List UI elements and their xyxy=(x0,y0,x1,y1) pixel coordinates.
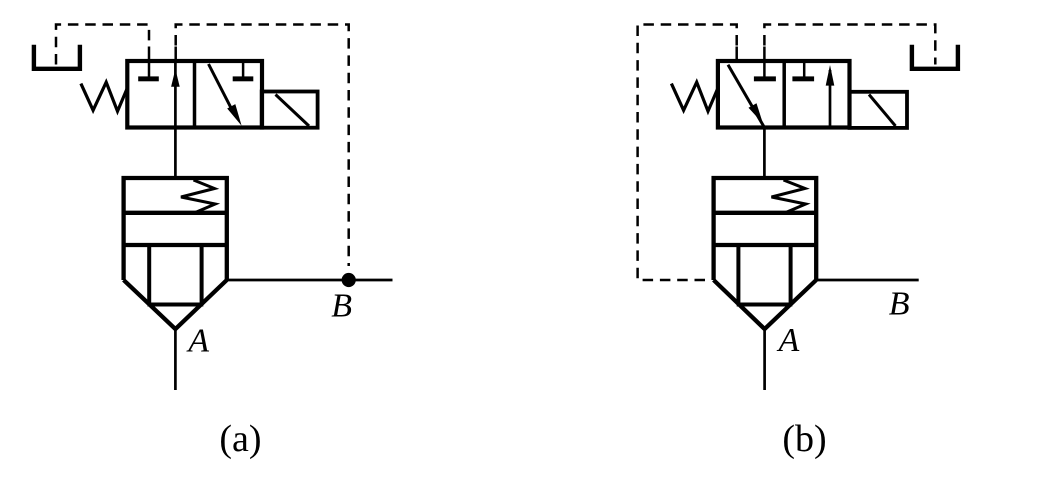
valve V1 position divider xyxy=(193,61,197,128)
check valve CV1 divider 2 xyxy=(124,243,227,247)
check valve CV2 poppet xyxy=(736,245,740,305)
pilot line: valve V1 vent port to tank T1 (dashed) xyxy=(56,25,149,65)
valve V2 pilot actuator box xyxy=(850,92,908,128)
spring (valve V1 return spring) xyxy=(81,82,127,111)
valve V2 left position blocked path arrow (diagonal) xyxy=(728,65,764,128)
svg-text:B: B xyxy=(331,288,352,325)
check valve CV1 divider 1 xyxy=(124,211,227,215)
valve V1 right position blocked path arrow (diagonal) xyxy=(209,64,233,111)
valve V1 pilot port stub xyxy=(174,47,177,62)
pilot line: valve V2 pilot port to check valve CV2 side port (dashed) xyxy=(638,25,737,281)
svg-text:A: A xyxy=(777,322,800,359)
valve V2 position divider xyxy=(782,61,786,128)
port A line (fig b) xyxy=(763,329,766,390)
svg-text:(b): (b) xyxy=(782,418,826,460)
valve V1 vent port stub xyxy=(148,47,151,62)
valve V2 body (3/2 directional valve, fig b) xyxy=(718,61,850,128)
check valve CV1 body outline (fig a) xyxy=(124,178,227,280)
check valve CV2 body outline (fig b) xyxy=(714,178,817,280)
valve V2 vent port stub xyxy=(763,47,766,62)
pilot line: valve V1 pilot port to port B (dashed) xyxy=(176,25,349,267)
svg-text:(a): (a) xyxy=(219,418,261,460)
check valve CV2 divider 2 xyxy=(714,243,817,247)
svg-text:B: B xyxy=(889,286,910,323)
junction dot on port B line xyxy=(342,273,356,287)
port A line (fig a) xyxy=(174,329,177,390)
port B line (fig a) xyxy=(227,279,393,282)
tank T1 (vent reservoir, fig a) xyxy=(34,45,80,69)
check valve CV2 divider 1 xyxy=(714,211,817,215)
valve V2 pilot port stub xyxy=(735,47,738,62)
check valve CV1 seat bevel (V) xyxy=(124,280,227,329)
tank T2 (vent reservoir, fig b) xyxy=(912,45,958,69)
svg-text:A: A xyxy=(186,322,209,359)
valve V2 right position flow path arrow (up) xyxy=(829,70,832,128)
valve V1 pilot actuator box xyxy=(262,92,318,128)
valve V2 pilot actuator diagonal xyxy=(869,95,896,127)
spring (valve V2 return spring) xyxy=(671,82,718,111)
valve V2 right position vent symbol T xyxy=(803,60,806,78)
valve V1 pilot actuator diagonal xyxy=(276,95,310,127)
main line: valve V1 to check valve CV1 xyxy=(174,128,177,179)
valve V1 left position vent symbol T xyxy=(148,60,151,78)
check valve CV2 seat bevel (V) xyxy=(714,280,817,329)
main line: valve V2 to check valve CV2 xyxy=(763,128,766,179)
valve V2 left position vent symbol T xyxy=(763,60,766,78)
check valve CV1 poppet xyxy=(147,245,151,305)
valve V1 body (3/2 directional valve, fig a) xyxy=(127,61,262,128)
spring (check valve CV1) xyxy=(181,180,215,213)
port B line (fig b) xyxy=(816,279,919,282)
valve V1 right position vent symbol T xyxy=(242,60,245,78)
spring (check valve CV2) xyxy=(772,180,806,213)
valve V1 left position flow path arrow (up) xyxy=(174,61,177,128)
pilot line: valve V2 vent port to tank T2 (dashed) xyxy=(764,25,935,65)
